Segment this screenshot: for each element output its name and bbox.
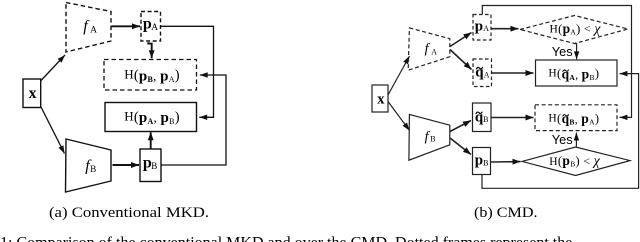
arrow fA to pA (b) <box>450 33 472 47</box>
svg-text:H(qA, pB): H(qA, pB) <box>548 66 599 82</box>
svg-text:f: f <box>425 42 431 57</box>
encoder fB (b) <box>409 114 450 160</box>
arrow pA down to H(pB,pA) (a) <box>148 42 151 58</box>
loss H(qA,pB) (b) <box>536 60 618 86</box>
svg-text:A: A <box>484 70 490 79</box>
arrow qB to H(qB,pA) (b) <box>491 117 533 119</box>
svg-text:(b) CMD.: (b) CMD. <box>474 205 538 221</box>
node pA (a) <box>141 12 161 42</box>
wire x to fB (a) <box>41 107 65 154</box>
svg-text:B: B <box>90 164 96 174</box>
arrow pB up to H(pA,pB) (a) <box>150 132 152 148</box>
loss H(pB,pA) (a) <box>104 60 197 91</box>
svg-text:B: B <box>430 134 435 143</box>
node x (a) <box>23 79 41 108</box>
svg-text:x: x <box>29 85 37 102</box>
node pB (b) <box>473 148 491 175</box>
loss H(qB,pA) (b) <box>535 105 617 131</box>
svg-text:H(qB, pA): H(qB, pA) <box>548 111 599 127</box>
svg-text:p: p <box>475 18 483 34</box>
arrow diamond down to H(qA,pB) (b) <box>575 44 577 60</box>
arrow pA to decision diamond (b) <box>491 28 518 30</box>
encoder fB (a) <box>66 139 112 192</box>
arrow fB to pB (b) <box>450 138 471 155</box>
svg-text:B: B <box>151 161 157 171</box>
node pB (a) <box>140 149 161 182</box>
svg-text:H(pB, pA): H(pB, pA) <box>124 67 180 85</box>
arrow fB to qB (b) <box>450 121 471 132</box>
encoder fA (a) <box>66 3 111 53</box>
arrow qA to H(qA,pB) (b) <box>492 72 534 74</box>
wire pB feedback to H(pB,pA) (a) <box>161 75 226 165</box>
encoder fA (b) <box>408 28 450 70</box>
svg-text:B: B <box>483 158 488 167</box>
arrow fB to pB (a) <box>113 164 140 166</box>
node qA (b) <box>473 59 492 87</box>
svg-text:Yes: Yes <box>552 132 573 147</box>
wire x to fB (b) <box>388 102 410 131</box>
decision H(pB)<chi (b) <box>522 147 630 176</box>
loss H(pA,pB) (a) <box>105 103 197 132</box>
node qB (b) <box>473 103 492 132</box>
node x (b) <box>372 85 388 112</box>
svg-text:1: Comparison of the conventio: 1: Comparison of the conventional MKD an… <box>0 235 572 242</box>
wire pA feedback to H(qB,pA) (b) <box>482 6 631 118</box>
wire x to fA (a) <box>41 55 65 81</box>
svg-text:(a) Conventional MKD.: (a) Conventional MKD. <box>49 205 209 221</box>
svg-text:A: A <box>483 24 489 33</box>
svg-text:Yes: Yes <box>552 44 573 59</box>
svg-text:A: A <box>431 47 437 56</box>
svg-text:H(pA, pB): H(pA, pB) <box>124 108 180 126</box>
svg-text:x: x <box>377 91 385 107</box>
arrow fA to qA (b) <box>450 50 472 70</box>
wire x to fA (b) <box>388 56 410 95</box>
svg-text:p: p <box>475 153 483 169</box>
svg-text:A: A <box>151 23 158 33</box>
node pA (b) <box>473 15 491 41</box>
svg-text:B: B <box>483 115 488 124</box>
decision H(pA)<chi (b) <box>520 16 628 44</box>
arrow diamond up to H(qB,pA) (b) <box>575 133 577 147</box>
arrow fA to pA (a) <box>112 25 141 27</box>
arrow pB to decision diamond (b) <box>491 161 521 163</box>
svg-text:H(pB) < χ: H(pB) < χ <box>549 153 600 169</box>
wire pA feedback to H(pA,pB) (a) <box>161 26 214 117</box>
svg-text:H(pA) < χ: H(pA) < χ <box>550 21 602 37</box>
wire pB feedback to H(qA,pB) (b) <box>482 74 639 189</box>
svg-text:A: A <box>90 26 97 36</box>
